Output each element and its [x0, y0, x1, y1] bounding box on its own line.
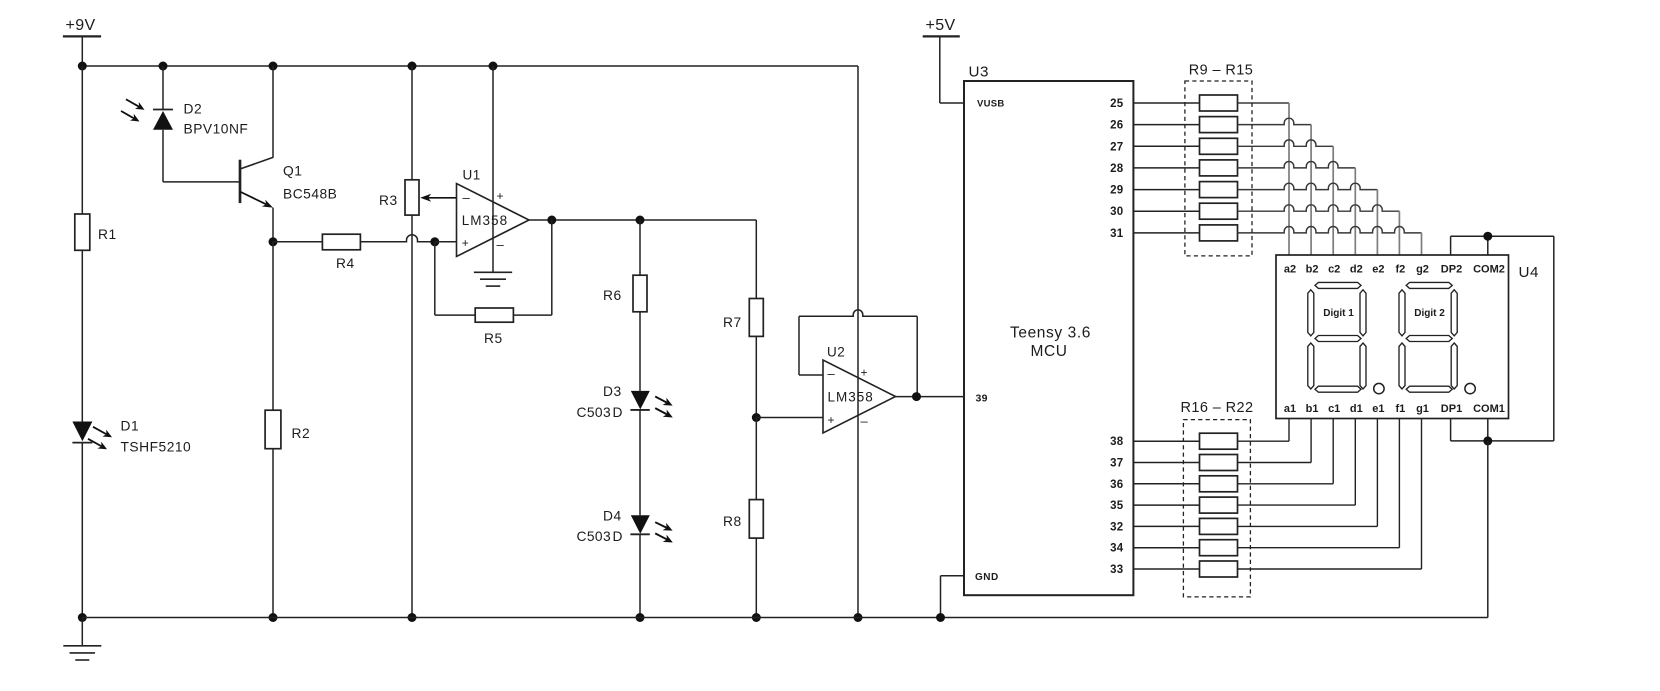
svg-text:U3: U3 [969, 63, 989, 80]
wire +5V to VUSB [940, 102, 964, 104]
wire R9 to display segment (hops) [1238, 103, 1290, 255]
display pin g1 label [1416, 403, 1429, 415]
decimal point DP1 circle [1374, 383, 1384, 393]
svg-text:+: + [462, 236, 470, 250]
wire DP2 to COM2 to right bus [1451, 236, 1554, 255]
wire ground rail [82, 617, 1488, 619]
pin 26 label [1110, 120, 1123, 132]
junction U1 output / R6 [636, 216, 645, 225]
junction rail / R3 [408, 62, 417, 71]
wire R5 to output [513, 220, 551, 315]
svg-text:R9 – R15: R9 – R15 [1189, 63, 1253, 79]
svg-text:b1: b1 [1306, 403, 1319, 415]
svg-text:TSHF5210: TSHF5210 [121, 440, 192, 455]
svg-text:30: 30 [1110, 206, 1123, 218]
svg-text:–: – [497, 237, 505, 252]
svg-text:MCU: MCU [1030, 343, 1067, 360]
svg-text:27: 27 [1110, 141, 1123, 153]
wire pin 30 to resistor R14 [1133, 210, 1199, 212]
resistor R17 [1200, 455, 1238, 471]
wire Q1 emitter to node [272, 208, 274, 242]
wire pin 35 to resistor R19 [1133, 504, 1199, 506]
wire pin 33 to resistor R22 [1133, 568, 1199, 570]
display pin a2 label [1284, 264, 1296, 276]
power +5V [923, 17, 960, 103]
wire output node to R6 [639, 220, 641, 275]
junction U1 plus input / R5 feedback [430, 237, 439, 246]
wire rail to R1 [81, 66, 83, 214]
resistor R14 [1200, 203, 1238, 219]
wire R11 to display segment (hops) [1238, 140, 1334, 255]
svg-text:35: 35 [1110, 500, 1124, 512]
junction rail / D2 [159, 62, 168, 71]
resistor R4 [322, 234, 360, 271]
display pin DP1 label [1441, 403, 1462, 415]
display U4 body [1276, 255, 1509, 419]
wire pin 34 to resistor R21 [1133, 547, 1199, 549]
resistor R1 [75, 214, 117, 250]
LED D4 [577, 509, 673, 545]
svg-text:f2: f2 [1396, 264, 1406, 276]
svg-text:Q1: Q1 [283, 164, 302, 179]
svg-text:Digit 1: Digit 1 [1323, 308, 1354, 319]
junction ground rail / GND [936, 613, 945, 622]
wire D2 to Q1 base [163, 130, 239, 182]
wire pin 32 to resistor R20 [1133, 525, 1199, 527]
junction rail / U1 V+ [489, 62, 498, 71]
wire R10 to display segment (hops) [1238, 118, 1312, 255]
display pin f1 label [1396, 403, 1406, 415]
svg-text:32: 32 [1110, 521, 1123, 533]
svg-text:e1: e1 [1372, 403, 1384, 415]
svg-text:Teensy 3.6: Teensy 3.6 [1010, 325, 1091, 342]
pin VUSB label [977, 99, 1005, 110]
wire pin 26 to resistor R10 [1133, 124, 1199, 126]
pin 31 label [1110, 228, 1124, 240]
svg-text:39: 39 [976, 393, 988, 405]
wire R20 to display segment [1238, 419, 1378, 527]
display U4 label [1519, 264, 1539, 281]
svg-text:BPV10NF: BPV10NF [184, 122, 249, 137]
junction Q1 emitter / R4 / R2 [269, 237, 278, 246]
svg-text:a1: a1 [1284, 403, 1296, 415]
resistor array box R16-R22 [1181, 400, 1254, 597]
resistor R5 [475, 308, 513, 346]
pin 36 label [1110, 479, 1123, 491]
wire feedback down from plus node [435, 242, 475, 315]
svg-text:DP1: DP1 [1441, 403, 1462, 415]
svg-text:D4: D4 [603, 509, 622, 524]
svg-text:d1: d1 [1350, 403, 1363, 415]
svg-text:COM1: COM1 [1473, 403, 1505, 415]
pin 37 label [1110, 458, 1123, 470]
resistor R12 [1200, 160, 1238, 176]
resistor R2 [265, 410, 310, 449]
resistor R19 [1200, 497, 1238, 513]
svg-text:U1: U1 [463, 168, 481, 183]
svg-text:–: – [861, 414, 869, 429]
svg-text:28: 28 [1110, 163, 1124, 175]
svg-text:29: 29 [1110, 185, 1123, 197]
wire R12 to display segment (hops) [1238, 161, 1356, 255]
wire rail to U1 V+ and V- to ground [492, 66, 494, 272]
wire right bus vertical [1553, 236, 1555, 441]
display pin e2 label [1372, 264, 1384, 276]
svg-text:R16 – R22: R16 – R22 [1181, 400, 1254, 416]
wire to U1 plus input [435, 241, 457, 243]
display pin COM1 label [1473, 403, 1505, 415]
wire pin 25 to resistor R9 [1133, 102, 1199, 104]
resistor R6 [603, 275, 647, 312]
pin 39 label [976, 393, 988, 405]
svg-text:R6: R6 [603, 288, 622, 303]
wire R13 to display segment (hops) [1238, 183, 1378, 255]
svg-text:–: – [828, 366, 836, 381]
svg-text:c2: c2 [1328, 264, 1340, 276]
junction DP2/COM2 [1483, 232, 1492, 241]
svg-text:D: D [613, 529, 623, 544]
display pin d2 label [1350, 264, 1363, 276]
svg-text:C503: C503 [577, 405, 612, 420]
svg-text:C503: C503 [577, 529, 612, 544]
svg-text:LM358: LM358 [828, 390, 874, 405]
svg-text:+: + [497, 189, 505, 203]
display pin c1 label [1328, 403, 1340, 415]
junction rail / Q1 collector [269, 62, 278, 71]
wire pin 37 to resistor R17 [1133, 462, 1199, 464]
svg-text:Digit 2: Digit 2 [1414, 308, 1445, 319]
wire node to R2 [272, 242, 274, 410]
wire R16 to display segment [1238, 419, 1290, 442]
wire R1 to D1 [81, 250, 83, 421]
wire +9V top rail [82, 65, 858, 67]
svg-text:U4: U4 [1519, 264, 1539, 281]
svg-text:LM358: LM358 [462, 213, 508, 228]
svg-text:34: 34 [1110, 543, 1124, 555]
resistor R13 [1200, 182, 1238, 198]
wire R22 to display segment [1238, 419, 1422, 570]
junction ground rail left [78, 613, 87, 622]
svg-text:DP2: DP2 [1441, 264, 1462, 276]
wire COM node to ground rail [1487, 441, 1489, 618]
pin 32 label [1110, 521, 1123, 533]
7-segment digit 1 [1308, 282, 1366, 392]
wire pin 31 to resistor R15 [1133, 232, 1199, 234]
svg-text:R8: R8 [723, 514, 742, 529]
svg-text:GND: GND [975, 572, 999, 583]
display pin b1 label [1306, 403, 1319, 415]
junction ground rail / U2 supply [854, 613, 863, 622]
svg-text:D2: D2 [184, 102, 203, 117]
svg-text:36: 36 [1110, 479, 1123, 491]
wire divider node to R8 [755, 418, 757, 500]
MCU U3 Teensy 3.6 [964, 63, 1133, 595]
junction +9V rail / R1 [78, 62, 87, 71]
wire U2 output to U3 pin 39 [896, 396, 965, 398]
junction U1 output / feedback [547, 216, 556, 225]
svg-text:+: + [828, 413, 836, 427]
display pin g2 label [1416, 264, 1429, 276]
junction ground rail / R3 [408, 613, 417, 622]
wire R7 to divider node [755, 336, 757, 417]
pin 33 label [1110, 564, 1123, 576]
svg-text:+5V: +5V [926, 17, 956, 34]
svg-text:D3: D3 [603, 384, 622, 399]
wire pin 29 to resistor R13 [1133, 189, 1199, 191]
wire +9V rail down through U2 to ground rail [857, 66, 859, 618]
display pin COM2 label [1473, 264, 1505, 276]
wire rail to D2 [162, 66, 164, 110]
pin 25 label [1110, 98, 1124, 110]
op-amp U2 [823, 345, 896, 434]
svg-text:37: 37 [1110, 458, 1123, 470]
wire pin 27 to resistor R11 [1133, 145, 1199, 147]
junction ground rail / R8 [752, 613, 761, 622]
photodiode D2 [121, 99, 248, 136]
junction ground rail / D4 [636, 613, 645, 622]
wire R18 to display segment [1238, 419, 1334, 484]
svg-text:b2: b2 [1306, 264, 1319, 276]
svg-text:26: 26 [1110, 120, 1123, 132]
junction ground rail / R2 [269, 613, 278, 622]
junction U2 output / feedback [912, 392, 921, 401]
resistor R15 [1200, 225, 1238, 241]
wire D3 to D4 [639, 410, 641, 515]
wire GND pin to ground rail [941, 576, 965, 618]
wire D1 to ground rail [81, 443, 83, 618]
pin 35 label [1110, 500, 1124, 512]
svg-text:D1: D1 [121, 419, 140, 434]
svg-text:R2: R2 [292, 426, 311, 441]
svg-text:D: D [613, 405, 623, 420]
wire R2 to ground rail [272, 449, 274, 618]
diode D1 [72, 419, 191, 455]
display pin f2 label [1396, 264, 1406, 276]
svg-text:e2: e2 [1372, 264, 1384, 276]
transistor Q1 [240, 66, 337, 208]
resistor R10 [1200, 117, 1238, 133]
resistor R16 [1200, 433, 1238, 449]
display pin b2 label [1306, 264, 1319, 276]
svg-text:33: 33 [1110, 564, 1123, 576]
LED D3 [577, 384, 673, 420]
wire R6 to D3 [639, 312, 641, 392]
display pin e1 label [1372, 403, 1384, 415]
pin GND label [975, 572, 999, 583]
resistor R9 [1200, 95, 1238, 111]
wire D4 to ground rail [639, 534, 641, 617]
svg-text:–: – [463, 190, 471, 205]
svg-text:U2: U2 [827, 345, 845, 360]
wire U1 output [529, 219, 756, 221]
wire R8 to ground rail [755, 538, 757, 617]
svg-text:+9V: +9V [66, 17, 96, 34]
wire R14 to display segment (hops) [1238, 205, 1400, 255]
wire R17 to display segment [1238, 419, 1312, 463]
svg-text:d2: d2 [1350, 264, 1363, 276]
resistor R18 [1200, 476, 1238, 492]
pin 30 label [1110, 206, 1123, 218]
pin 38 label [1110, 436, 1124, 448]
pin 34 label [1110, 543, 1124, 555]
svg-text:R7: R7 [723, 315, 742, 330]
resistor R20 [1200, 518, 1238, 534]
wire R4 to U1 plus input (hop over R3 leg) [360, 235, 434, 242]
wire U2 feedback (minus input loop with hop) [799, 310, 917, 397]
svg-text:g1: g1 [1416, 403, 1429, 415]
resistor R21 [1200, 540, 1238, 556]
display pin a1 label [1284, 403, 1296, 415]
ground symbol U1 [474, 272, 512, 286]
wire pin 38 to resistor R16 [1133, 440, 1199, 442]
svg-text:a2: a2 [1284, 264, 1296, 276]
display pin c2 label [1328, 264, 1340, 276]
wire R19 to display segment [1238, 419, 1356, 506]
display pin d1 label [1350, 403, 1363, 415]
wire emitter node to R4 [273, 241, 322, 243]
decimal point DP2 circle [1465, 383, 1475, 393]
svg-text:f1: f1 [1396, 403, 1406, 415]
svg-text:25: 25 [1110, 98, 1124, 110]
wire R3 bottom to ground rail [411, 215, 413, 617]
junction DP1/COM1 [1483, 436, 1492, 445]
svg-text:BC548B: BC548B [283, 187, 337, 202]
resistor R7 [723, 299, 763, 337]
svg-text:R4: R4 [336, 256, 355, 271]
svg-text:+: + [861, 366, 869, 380]
svg-text:VUSB: VUSB [977, 99, 1005, 110]
resistor R22 [1200, 561, 1238, 577]
pin 29 label [1110, 185, 1123, 197]
resistor R8 [723, 500, 763, 538]
svg-text:c1: c1 [1328, 403, 1340, 415]
resistor array box R9-R15 [1185, 63, 1253, 256]
power +9V [63, 17, 101, 66]
pin 27 label [1110, 141, 1123, 153]
wire R15 to display segment (hops) [1238, 226, 1422, 255]
wire pin 28 to resistor R12 [1133, 167, 1199, 169]
junction divider / U2 plus [752, 413, 761, 422]
svg-text:38: 38 [1110, 436, 1124, 448]
svg-text:R1: R1 [98, 227, 117, 242]
potentiometer R3 [379, 180, 457, 215]
svg-text:R3: R3 [379, 193, 398, 208]
wire pin 36 to resistor R18 [1133, 483, 1199, 485]
wire divider to U2 plus input [756, 417, 823, 419]
wire DP1 to COM1 to right bus [1451, 419, 1554, 441]
op-amp U1 [457, 168, 530, 257]
pin 28 label [1110, 163, 1124, 175]
ground symbol main [63, 618, 101, 661]
7-segment digit 2 [1399, 282, 1457, 392]
svg-text:R5: R5 [484, 331, 503, 346]
resistor R11 [1200, 138, 1238, 154]
svg-text:31: 31 [1110, 228, 1124, 240]
svg-text:g2: g2 [1416, 264, 1429, 276]
svg-text:COM2: COM2 [1473, 264, 1505, 276]
wire output to R7 [755, 220, 757, 299]
wire R21 to display segment [1238, 419, 1400, 548]
display pin DP2 label [1441, 264, 1462, 276]
wire rail to R3 [411, 66, 413, 180]
